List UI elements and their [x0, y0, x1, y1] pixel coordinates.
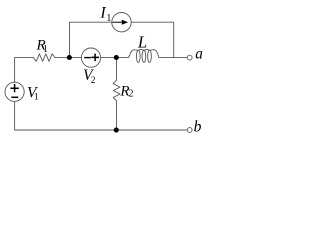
inductor L lead in: [128, 50, 138, 58]
resistor R2 with leads: [113, 58, 120, 130]
wire left rail top: [15, 58, 34, 83]
wire V2 to right node: [101, 57, 129, 59]
wire branch up from left node: [69, 22, 71, 57]
svg-text:a: a: [195, 46, 203, 63]
svg-text:b: b: [194, 118, 202, 135]
V1 plus sign: [10, 84, 18, 92]
node dot bottom: [114, 128, 119, 133]
wire top left: [70, 21, 112, 23]
V2 minus sign: [84, 57, 91, 59]
inductor L lead out: [150, 50, 159, 58]
svg-text:L: L: [137, 32, 147, 51]
terminal b: [187, 128, 192, 133]
voltage source V2: [81, 48, 100, 67]
wire R1 to V2: [55, 57, 81, 59]
current source I1: [112, 13, 131, 32]
V2 plus sign: [91, 54, 99, 62]
svg-text:1: 1: [34, 93, 39, 103]
wire top right: [131, 22, 174, 57]
node dot left: [67, 55, 72, 60]
V1 minus sign: [11, 96, 18, 98]
svg-text:1: 1: [106, 13, 111, 24]
svg-text:1: 1: [43, 44, 48, 55]
svg-text:I: I: [99, 4, 106, 21]
arrow head of I1: [122, 20, 128, 25]
resistor R1: [34, 54, 56, 62]
node dot right: [114, 55, 119, 60]
wire left rail bottom + bottom rail: [15, 101, 188, 130]
wire L to terminal a: [159, 57, 187, 59]
svg-text:2: 2: [91, 76, 96, 86]
voltage source V1: [5, 82, 24, 101]
svg-text:2: 2: [129, 89, 134, 100]
inductor L arches: [138, 49, 149, 50]
I1 arrow shaft: [113, 21, 124, 23]
terminal a: [187, 55, 192, 60]
inductor L loops: [136, 50, 140, 62]
